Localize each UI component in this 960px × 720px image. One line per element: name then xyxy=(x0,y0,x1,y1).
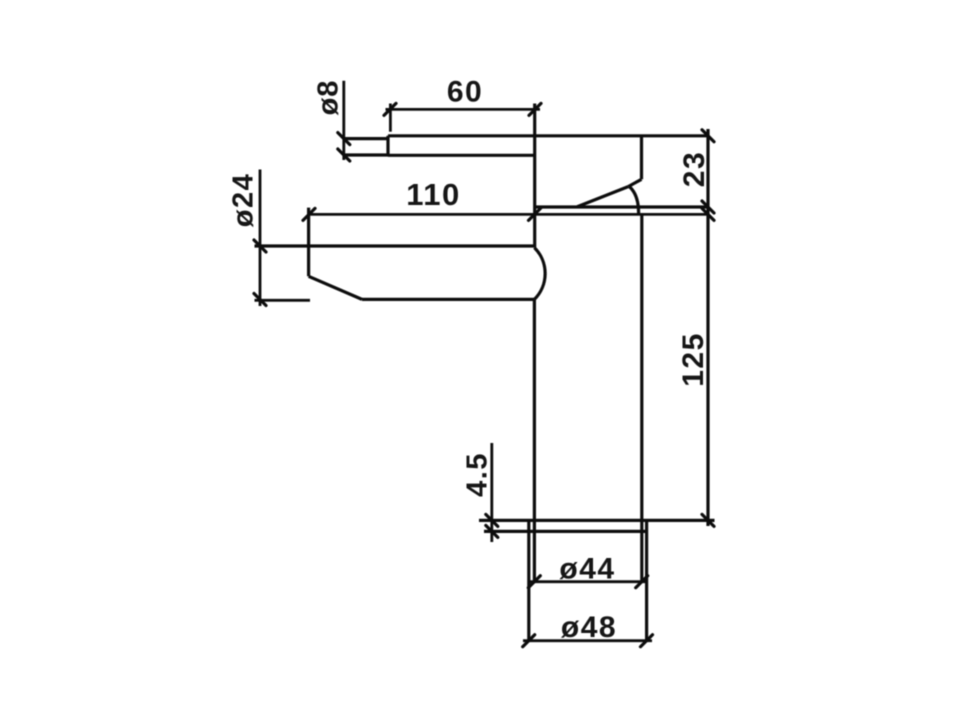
svg-text:60: 60 xyxy=(447,76,483,109)
tick 4.5 bottom xyxy=(486,525,498,537)
60 left extension xyxy=(389,104,392,132)
tick 110 left xyxy=(303,208,315,220)
ø24 bottom extension line xyxy=(255,299,311,302)
spout chamfer xyxy=(309,276,362,299)
collar line / 110 dimension line xyxy=(309,213,708,216)
svg-text:23: 23 xyxy=(678,151,711,187)
dimension line ø48 xyxy=(523,639,652,642)
body/dim vertical right (23 and 125 dimension line) xyxy=(706,129,709,526)
dimension line ø44 xyxy=(529,580,647,583)
base left edge xyxy=(527,520,530,640)
dimension line ø8 xyxy=(342,81,345,160)
tick 60 right xyxy=(529,103,541,115)
spout bottom edge xyxy=(362,298,534,301)
tick 23 top xyxy=(702,130,714,142)
dimension line 60 xyxy=(386,108,541,111)
handle tip top edge xyxy=(344,137,388,140)
tick ø8 bottom xyxy=(338,149,350,161)
spout root arc on body xyxy=(534,248,545,300)
handle rod bottom edge xyxy=(388,154,535,157)
tick ø24 top xyxy=(254,240,266,252)
svg-text:ø44: ø44 xyxy=(559,553,615,586)
svg-text:110: 110 xyxy=(406,177,461,212)
spout top edge (with ø24 extension left) xyxy=(255,244,535,247)
tick ø24 bottom xyxy=(254,294,266,306)
base top edge (with 4.5 and 125 extensions) xyxy=(479,519,715,522)
tick ø44 right xyxy=(636,576,648,588)
dimension line ø24 xyxy=(259,170,262,307)
lever end chamfer xyxy=(628,179,641,186)
svg-text:ø8: ø8 xyxy=(313,80,345,116)
tick ø8 top xyxy=(338,133,350,145)
column right edge (extends to ø44 dim) xyxy=(640,214,643,581)
lever swing arc xyxy=(629,187,638,214)
svg-text:ø48: ø48 xyxy=(561,611,617,644)
svg-text:4.5: 4.5 xyxy=(462,452,494,497)
lever open-position edge xyxy=(577,187,628,207)
handle rod left end edge xyxy=(386,136,389,156)
svg-text:ø24: ø24 xyxy=(228,173,260,227)
body left edge upper (with 60 extension above) xyxy=(533,104,536,248)
lever end vertical xyxy=(640,136,643,180)
tick 125 bottom xyxy=(702,514,714,526)
handle tip bottom edge xyxy=(344,153,388,156)
tick 110 right xyxy=(529,208,541,220)
dimension line 4.5 xyxy=(490,443,493,542)
column left edge (extends to ø44 dim) xyxy=(533,299,536,581)
base right edge xyxy=(645,520,648,640)
tick ø48 right xyxy=(641,635,653,647)
tick ø44 left xyxy=(528,576,540,588)
spout left edge / 110 extension xyxy=(307,208,310,277)
head block bottom edge xyxy=(536,205,708,208)
tick ø48 left xyxy=(523,635,535,647)
tick 23 bottom xyxy=(702,201,714,213)
handle rod top edge / body top edge xyxy=(388,134,708,137)
svg-text:125: 125 xyxy=(677,332,710,387)
base step line xyxy=(484,530,647,533)
tick 4.5 top xyxy=(486,514,498,526)
tick 125 top xyxy=(702,208,714,220)
tick 60 left xyxy=(384,103,396,115)
